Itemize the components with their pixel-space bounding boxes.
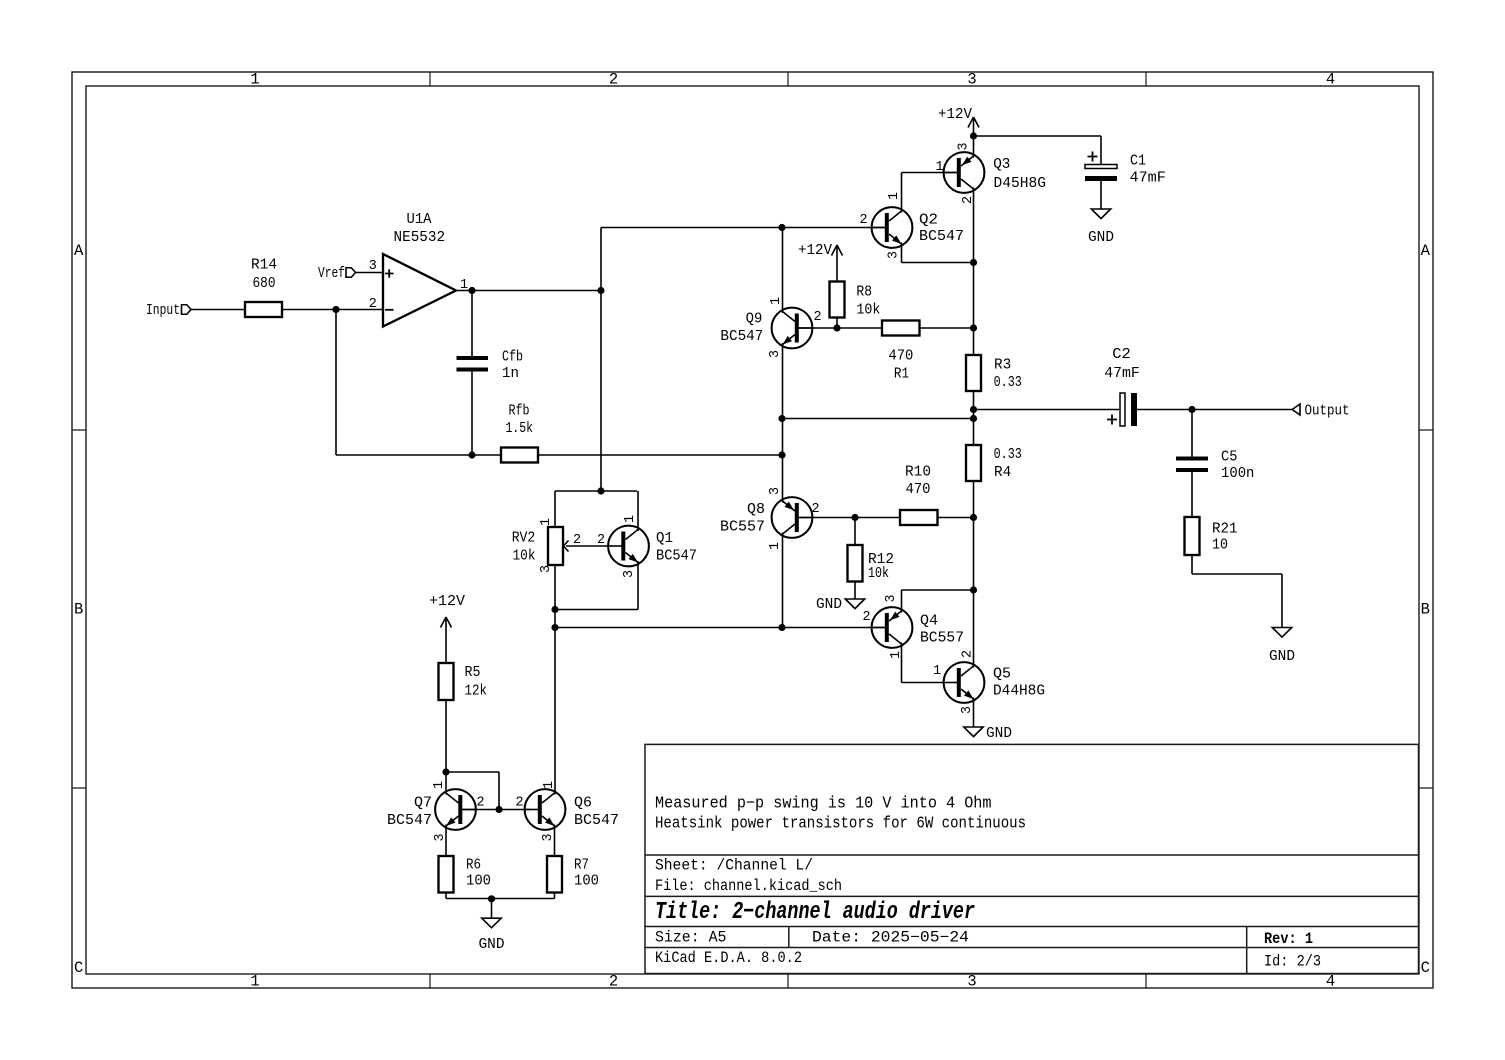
wire Q9 emitter down to Q8 <box>782 343 784 503</box>
wire Q1 collector <box>637 491 639 531</box>
svg-text:1: 1 <box>768 542 783 550</box>
junction RV2 bottom / Q1 emitter <box>551 606 558 613</box>
svg-text:Q7: Q7 <box>414 795 432 812</box>
wire <box>554 491 556 527</box>
junction bias to Q4 base <box>551 624 558 631</box>
wire <box>938 517 974 519</box>
wire R21 to GND <box>1191 555 1193 574</box>
wire <box>973 481 975 518</box>
junction output / C5 <box>1188 406 1195 413</box>
resistor R5 <box>439 663 454 700</box>
wire <box>1100 181 1102 209</box>
title block <box>645 744 1419 973</box>
svg-text:BC547: BC547 <box>720 328 763 345</box>
svg-text:U1A: U1A <box>407 211 432 228</box>
wire <box>1191 410 1193 457</box>
svg-text:100: 100 <box>466 873 491 890</box>
junction Q7/Q6 bases <box>495 806 502 813</box>
svg-text:100n: 100n <box>1221 465 1254 482</box>
resistor Rfb <box>501 448 538 463</box>
svg-text:R8: R8 <box>856 284 872 301</box>
svg-text:3: 3 <box>768 487 783 495</box>
junction Cfb/Rfb <box>468 451 475 458</box>
wire <box>974 409 1120 411</box>
svg-text:C2: C2 <box>1112 346 1131 363</box>
transistor Q2 <box>872 207 913 248</box>
wire <box>601 227 885 229</box>
wire Q3 collector <box>973 188 975 263</box>
svg-text:Q5: Q5 <box>993 666 1011 683</box>
svg-text:1: 1 <box>542 781 557 789</box>
svg-text:47mF: 47mF <box>1130 170 1166 187</box>
junction R12 top <box>851 514 858 521</box>
svg-text:R6: R6 <box>466 857 481 874</box>
junction R8 bottom <box>833 324 840 331</box>
svg-text:10k: 10k <box>868 565 889 582</box>
wire Q4 collector <box>901 643 903 683</box>
ground (Q5) <box>964 727 983 737</box>
resistor R14 <box>245 302 282 317</box>
wire <box>1281 574 1283 628</box>
wire <box>471 372 473 456</box>
svg-text:Q1: Q1 <box>656 530 673 547</box>
wire <box>973 136 975 158</box>
wire <box>854 582 856 600</box>
svg-text:12k: 12k <box>465 683 488 700</box>
wire <box>902 682 945 684</box>
svg-text:BC547: BC547 <box>387 812 432 829</box>
svg-text:2: 2 <box>609 973 618 991</box>
wire RV2 wiper to Q1 base <box>578 545 608 547</box>
svg-text:GND: GND <box>986 725 1012 742</box>
svg-text:C5: C5 <box>1221 448 1237 465</box>
wire <box>491 899 493 918</box>
transistor Q6 <box>525 789 566 830</box>
wire <box>1192 573 1282 575</box>
ground (R12) <box>845 599 864 609</box>
resistor R10 <box>900 510 938 525</box>
wire Q4 emitter <box>901 590 903 613</box>
wire <box>555 490 637 492</box>
svg-text:1: 1 <box>769 297 784 305</box>
svg-text:1: 1 <box>935 160 943 175</box>
svg-text:Size: A5: Size: A5 <box>655 929 727 947</box>
frame row ticks right <box>1419 430 1433 788</box>
svg-text:10k: 10k <box>513 548 536 565</box>
svg-text:1: 1 <box>539 518 554 526</box>
port Output <box>1292 404 1300 415</box>
junction R1/R8 node <box>970 324 977 331</box>
svg-text:B: B <box>1421 601 1430 619</box>
resistor R21 <box>1185 517 1200 555</box>
wire <box>1100 136 1102 165</box>
junction op-amp output / Cfb <box>468 287 475 294</box>
svg-text:3: 3 <box>768 350 783 358</box>
svg-text:GND: GND <box>479 936 505 953</box>
junction R4 / R10 <box>970 514 977 521</box>
wire <box>902 262 974 264</box>
svg-text:2: 2 <box>515 796 523 811</box>
svg-text:Cfb: Cfb <box>502 349 523 366</box>
svg-text:C: C <box>74 959 83 977</box>
wire <box>973 263 975 356</box>
svg-text:KiCad E.D.A. 8.0.2: KiCad E.D.A. 8.0.2 <box>655 949 802 967</box>
ground (R6/R7) <box>482 918 501 928</box>
svg-text:680: 680 <box>253 275 276 292</box>
wire R6 to ground rail <box>445 893 447 899</box>
svg-text:R4: R4 <box>994 464 1011 481</box>
svg-text:1.5k: 1.5k <box>506 420 534 437</box>
wire <box>1191 472 1193 517</box>
frame row ticks left <box>72 430 86 788</box>
junction output node <box>970 406 977 413</box>
op-amp U1A <box>383 254 456 327</box>
resistor R3 <box>966 355 981 391</box>
wire <box>973 590 975 668</box>
svg-text:BC547: BC547 <box>574 812 619 829</box>
resistor R12 <box>848 545 863 582</box>
junction Rfb / Q8 emitter <box>778 451 785 458</box>
svg-text:Q9: Q9 <box>746 311 763 328</box>
svg-text:RV2: RV2 <box>512 529 536 546</box>
svg-text:Title: 2−channel audio driver: Title: 2−channel audio driver <box>655 899 975 926</box>
wire <box>782 228 784 314</box>
wire <box>973 518 975 591</box>
junction +12V rail <box>970 132 977 139</box>
svg-text:BC547: BC547 <box>656 548 697 565</box>
svg-text:B: B <box>74 601 83 619</box>
svg-text:Sheet: /Channel L/: Sheet: /Channel L/ <box>655 857 813 875</box>
wire <box>456 290 601 292</box>
wire <box>498 772 500 810</box>
wire <box>446 771 499 773</box>
wire <box>282 309 383 311</box>
transistor Q3 <box>944 152 985 193</box>
wire R7 to ground rail <box>554 893 556 899</box>
svg-text:A: A <box>1421 242 1431 260</box>
transistor Q1 <box>608 526 649 567</box>
svg-text:R7: R7 <box>574 857 589 874</box>
svg-text:+12V: +12V <box>429 593 465 610</box>
svg-text:D44H8G: D44H8G <box>993 683 1045 700</box>
junction Q9 emitter / R3-R4 link <box>778 415 785 422</box>
svg-text:2: 2 <box>961 650 976 658</box>
wire Q2 emitter <box>901 243 903 263</box>
wire <box>600 228 602 492</box>
svg-text:2: 2 <box>609 71 618 89</box>
svg-text:4: 4 <box>1326 973 1335 991</box>
svg-text:3: 3 <box>967 973 976 991</box>
transistor Q7 <box>435 789 476 830</box>
svg-text:3: 3 <box>887 251 902 259</box>
power +12V arrow (top) <box>968 117 979 136</box>
resistor R4 <box>966 445 981 481</box>
svg-text:R14: R14 <box>251 257 277 274</box>
outer border frame <box>72 72 1433 988</box>
svg-text:3: 3 <box>369 259 377 274</box>
ground (C1) <box>1091 209 1110 219</box>
svg-text:R10: R10 <box>905 464 931 481</box>
svg-text:Q3: Q3 <box>993 156 1010 173</box>
svg-text:BC557: BC557 <box>920 630 964 647</box>
wire <box>854 518 856 546</box>
svg-text:Rfb: Rfb <box>509 403 530 420</box>
svg-text:4: 4 <box>1326 71 1335 89</box>
svg-text:Id: 2/3: Id: 2/3 <box>1264 953 1321 971</box>
wire +12V to C1 <box>974 135 1102 137</box>
svg-text:C: C <box>1421 959 1430 977</box>
svg-text:100: 100 <box>574 873 599 890</box>
capacitor C5 <box>1176 457 1208 473</box>
inner border frame <box>86 86 1419 974</box>
wire Q9 base to R1 <box>800 327 883 329</box>
resistor R1 <box>882 321 920 336</box>
svg-text:GND: GND <box>1088 229 1114 246</box>
junction Q8 collector / Q4 base rail <box>778 624 785 631</box>
svg-text:+12V: +12V <box>798 242 832 259</box>
svg-text:R21: R21 <box>1212 520 1238 537</box>
potentiometer RV2 <box>548 527 563 565</box>
wire <box>973 391 975 445</box>
wire <box>191 309 245 311</box>
svg-text:GND: GND <box>1269 648 1295 665</box>
resistor R8 <box>830 282 845 318</box>
transistor Q5 <box>944 662 985 703</box>
svg-text:Vref: Vref <box>318 265 345 282</box>
svg-text:1: 1 <box>933 664 941 679</box>
wire bias rail to Q4 base <box>555 627 885 629</box>
port Vref <box>346 268 356 278</box>
svg-text:10: 10 <box>1212 537 1228 554</box>
svg-text:3: 3 <box>884 594 899 602</box>
wire <box>920 327 974 329</box>
svg-text:+12V: +12V <box>938 106 972 123</box>
svg-text:Q8: Q8 <box>747 501 765 518</box>
wire Q5 emitter to ground <box>973 698 975 728</box>
junction at R14/inverting input <box>332 306 339 313</box>
svg-text:R3: R3 <box>994 356 1011 373</box>
wire <box>335 310 337 456</box>
wire <box>336 454 501 456</box>
junction Q4 emitter / Q5 collector <box>970 586 977 593</box>
wire Q8 base to R10 <box>800 517 901 519</box>
svg-text:2: 2 <box>369 297 377 312</box>
capacitor Cfb <box>457 356 489 372</box>
transistor Q8 <box>772 497 813 538</box>
svg-text:2: 2 <box>811 502 819 517</box>
wire <box>356 272 384 274</box>
RV2 wiper arrow <box>564 541 579 552</box>
capacitor C2 (polarized) <box>1120 393 1137 426</box>
plus sign C2 <box>1107 415 1117 425</box>
svg-text:2: 2 <box>813 310 821 325</box>
svg-text:R1: R1 <box>894 366 909 383</box>
junction ground node <box>488 895 495 902</box>
wire Q8 collector down <box>782 533 784 628</box>
junction Q9 collector rail <box>778 224 785 231</box>
plus sign C1 <box>1088 152 1098 162</box>
svg-text:NE5532: NE5532 <box>394 229 446 246</box>
svg-text:GND: GND <box>816 596 842 613</box>
svg-text:C1: C1 <box>1130 153 1146 170</box>
svg-text:1: 1 <box>250 71 259 89</box>
svg-text:47mF: 47mF <box>1104 365 1140 382</box>
svg-text:Input: Input <box>146 302 180 319</box>
svg-text:1: 1 <box>250 973 259 991</box>
resistor R6 <box>439 856 454 893</box>
transistor Q9 <box>772 308 813 349</box>
wire R5 to Q7 collector <box>445 700 447 795</box>
wire <box>782 418 974 420</box>
frame column ticks top <box>430 72 1146 86</box>
svg-text:2: 2 <box>862 610 870 625</box>
svg-text:Heatsink power transistors for: Heatsink power transistors for 6W contin… <box>655 813 1026 832</box>
svg-text:2: 2 <box>476 796 484 811</box>
svg-text:3: 3 <box>957 142 972 150</box>
wire <box>902 172 958 174</box>
svg-text:Date: 2025−05−24: Date: 2025−05−24 <box>812 929 969 947</box>
port Input <box>182 305 192 315</box>
junction op-amp output node <box>597 287 604 294</box>
svg-text:1n: 1n <box>502 365 519 382</box>
svg-text:3: 3 <box>967 71 976 89</box>
junction Q2 emitter / Q3 collector <box>970 259 977 266</box>
ground (R21) <box>1272 628 1291 638</box>
svg-text:Rev: 1: Rev: 1 <box>1264 930 1313 948</box>
wire Q7 base to Q6 base <box>460 809 530 811</box>
wire <box>446 898 555 900</box>
svg-text:BC547: BC547 <box>919 228 964 245</box>
wire Q7 emitter to R6 <box>445 825 447 857</box>
svg-text:A: A <box>74 242 84 260</box>
svg-text:2: 2 <box>859 213 867 228</box>
svg-text:File: channel.kicad_sch: File: channel.kicad_sch <box>655 877 842 895</box>
svg-text:Output: Output <box>1305 403 1350 420</box>
svg-text:10k: 10k <box>856 302 880 319</box>
svg-text:1: 1 <box>623 515 638 523</box>
svg-text:2: 2 <box>597 533 605 548</box>
svg-text:3: 3 <box>539 565 554 573</box>
svg-text:R5: R5 <box>465 664 481 681</box>
wire <box>471 291 473 357</box>
wire RV2 bottom rail to Q6 collector <box>554 565 556 795</box>
svg-text:470: 470 <box>906 481 931 498</box>
junction R5 / base link <box>442 768 449 775</box>
svg-text:Q2: Q2 <box>919 211 938 228</box>
wire Q6 emitter to R7 <box>554 825 556 857</box>
resistor R7 <box>547 856 562 893</box>
wire <box>902 589 974 591</box>
wire <box>1136 409 1294 411</box>
power +12V arrow (R5) <box>441 617 452 663</box>
wire <box>836 318 838 329</box>
frame column ticks bottom <box>430 974 1146 988</box>
svg-text:1: 1 <box>432 781 447 789</box>
transistor Q4 <box>872 607 913 648</box>
capacitor C1 (polarized) <box>1085 165 1117 182</box>
wire <box>538 454 782 456</box>
svg-text:1: 1 <box>887 192 902 200</box>
junction bias rail <box>597 487 604 494</box>
junction R3/R4 <box>970 415 977 422</box>
svg-text:Q6: Q6 <box>574 795 592 812</box>
svg-text:BC557: BC557 <box>720 519 765 536</box>
power +12V arrow (R8) <box>832 245 843 282</box>
wire Q2 collector to Q3 base <box>901 173 903 213</box>
wire Q1 emitter <box>637 561 639 610</box>
svg-text:0.33: 0.33 <box>994 374 1022 391</box>
svg-text:470: 470 <box>888 348 913 365</box>
svg-text:D45H8G: D45H8G <box>994 175 1047 192</box>
svg-text:Q4: Q4 <box>920 613 938 630</box>
svg-text:0.33: 0.33 <box>994 446 1022 463</box>
svg-text:Measured p−p swing is 10 V int: Measured p−p swing is 10 V into 4 Ohm <box>655 794 992 813</box>
svg-text:3: 3 <box>622 570 637 578</box>
wire <box>555 609 638 611</box>
